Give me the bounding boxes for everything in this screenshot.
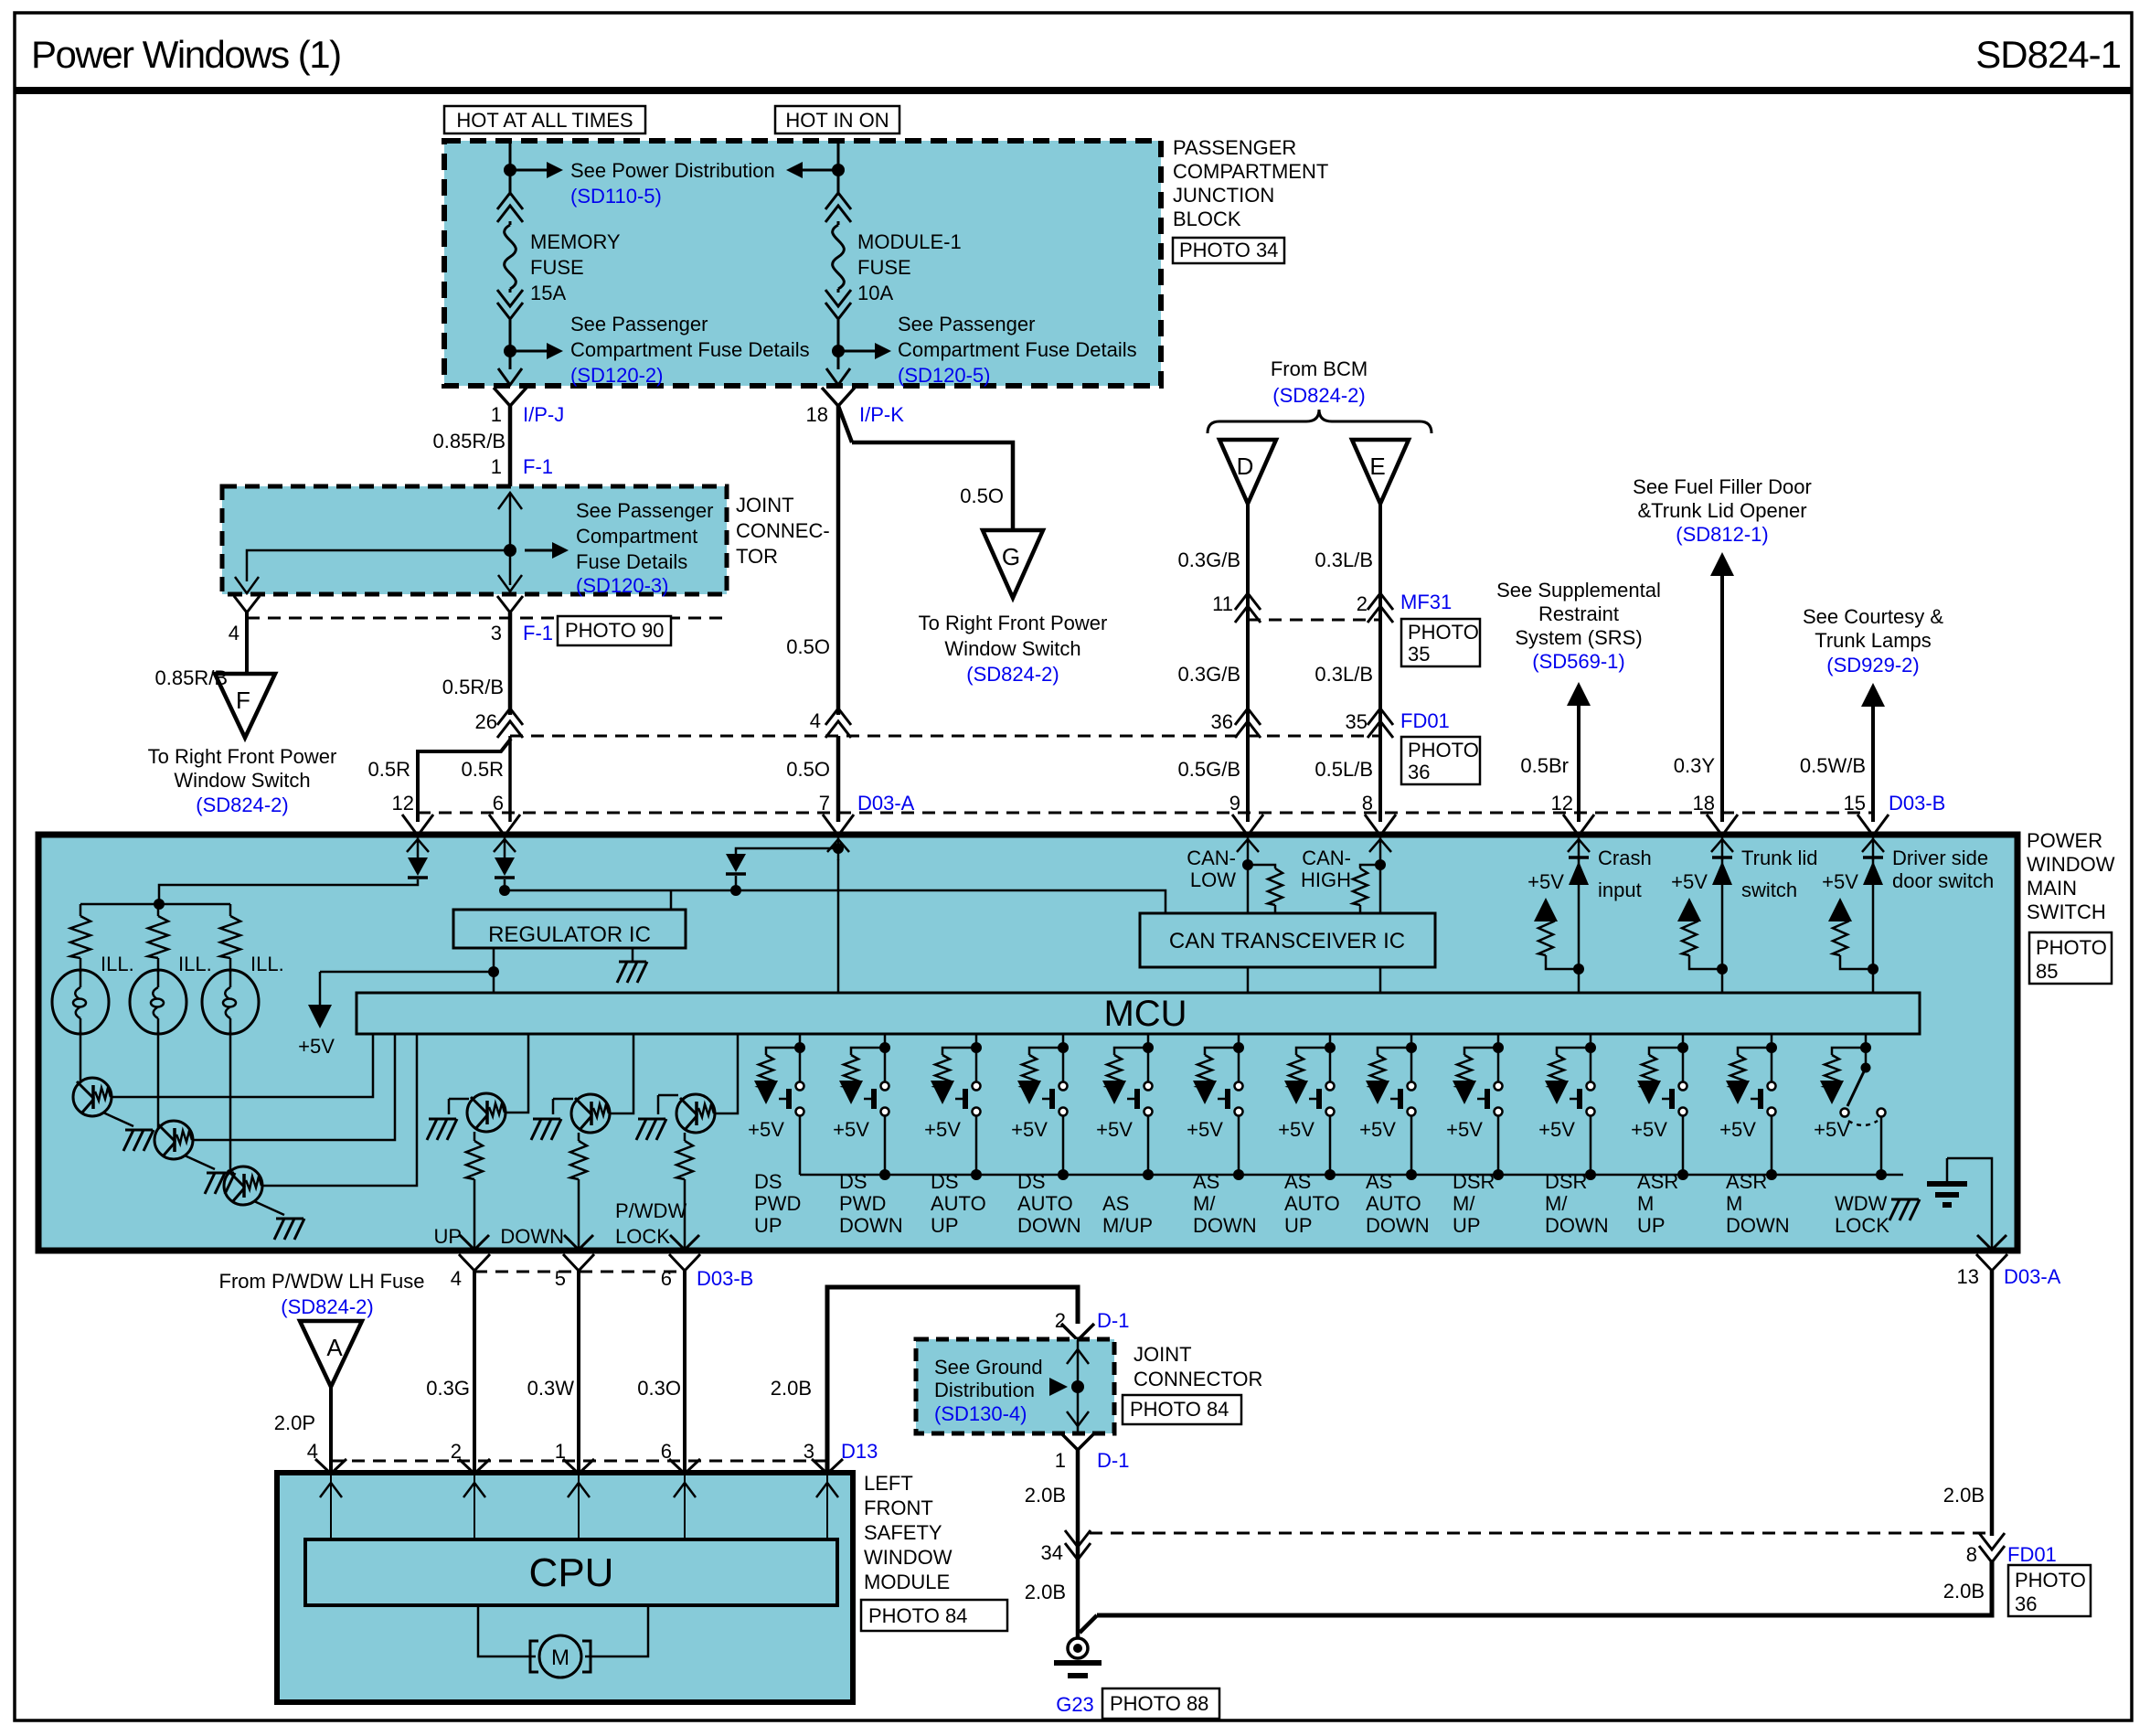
- svg-text:4: 4: [229, 622, 239, 644]
- svg-text:(SD110-5): (SD110-5): [570, 185, 662, 208]
- svg-text:FD01: FD01: [2007, 1543, 2057, 1566]
- switch cell DSR M/ DOWN: [1590, 1034, 1592, 1048]
- arrow to See Passenger Compartment Fuse Details (right): [844, 350, 877, 353]
- svg-text:12: 12: [392, 792, 414, 815]
- photo 84 box (joint connector): [1123, 1395, 1241, 1424]
- svg-text:WINDOW: WINDOW: [2027, 853, 2115, 876]
- svg-text:(SD929-2): (SD929-2): [1826, 654, 1919, 676]
- wire F-1 down to pin 26: [508, 612, 513, 715]
- junction node to fuse details: [504, 345, 516, 357]
- off-page triangle D: [1219, 440, 1276, 504]
- dashed connector row (FD01/pin4): [510, 735, 1380, 738]
- svg-text:See Ground: See Ground: [934, 1356, 1043, 1379]
- svg-text:PHOTO 90: PHOTO 90: [565, 619, 664, 642]
- connector leaving junction block pin 1 I/P-J: [498, 368, 522, 385]
- svg-text:4: 4: [810, 709, 821, 732]
- svg-text:PHOTO 88: PHOTO 88: [1110, 1692, 1208, 1715]
- wire driver door to courtesy lamps: [1871, 703, 1875, 822]
- Q2 base wire to MCU: [193, 1034, 395, 1140]
- svg-text:WINDOW: WINDOW: [864, 1546, 953, 1569]
- regulator ground: [632, 948, 634, 962]
- diode D3: [726, 854, 746, 872]
- diode D1 on pin 12 wire: [417, 857, 420, 860]
- WDW LOCK switch cell: [1865, 1034, 1868, 1048]
- lamp rail: [80, 903, 230, 906]
- connector 1 D-1: [1061, 1433, 1094, 1450]
- svg-text:PHOTO: PHOTO: [2015, 1569, 2086, 1592]
- svg-text:POWER: POWER: [2027, 829, 2102, 852]
- crash input cell: [1578, 859, 1581, 993]
- svg-text:0.3O: 0.3O: [637, 1377, 681, 1400]
- svg-text:System (SRS): System (SRS): [1515, 626, 1642, 649]
- lamp ILL 2: [130, 970, 186, 1034]
- svg-text:(SD130-4): (SD130-4): [934, 1402, 1027, 1425]
- svg-text:From P/WDW LH Fuse: From P/WDW LH Fuse: [219, 1270, 425, 1293]
- svg-text:CONNEC-: CONNEC-: [736, 519, 830, 542]
- switch cell AS AUTO UP: [1329, 1034, 1332, 1048]
- wire pin6 to +5V rail: [504, 879, 506, 890]
- svg-text:0.85R/B: 0.85R/B: [433, 430, 506, 453]
- svg-text:From BCM: From BCM: [1271, 357, 1368, 380]
- svg-text:15A: 15A: [530, 282, 566, 304]
- switch cell DSR M/ UP: [1497, 1034, 1500, 1048]
- wire branch to G triangle: [852, 442, 1013, 530]
- svg-text:PHOTO: PHOTO: [2036, 936, 2107, 959]
- CAN box to MCU wires: [1247, 967, 1250, 993]
- svg-text:See Passenger: See Passenger: [576, 499, 713, 522]
- svg-text:See Power Distribution: See Power Distribution: [570, 159, 775, 182]
- CAN transceiver box: [1140, 913, 1435, 967]
- wire 2.0B to D-1: [827, 1287, 1078, 1473]
- svg-text:PHOTO: PHOTO: [1408, 739, 1479, 761]
- svg-text:BLOCK: BLOCK: [1173, 208, 1241, 230]
- svg-text:Window Switch: Window Switch: [174, 769, 310, 792]
- svg-text:SD824-1: SD824-1: [1975, 33, 2121, 76]
- svg-text:DOWN: DOWN: [1726, 1214, 1790, 1237]
- rail junction: [1585, 1169, 1596, 1180]
- svg-text:18: 18: [1693, 792, 1715, 815]
- photo 34 box: [1173, 238, 1284, 263]
- svg-text:FUSE: FUSE: [530, 256, 584, 279]
- svg-text:Compartment Fuse Details: Compartment Fuse Details: [898, 338, 1137, 361]
- svg-text:PWD: PWD: [754, 1192, 801, 1215]
- resistor R-ill3: [229, 904, 232, 916]
- svg-text:Compartment: Compartment: [576, 525, 697, 548]
- wire D (CAN low): [1246, 504, 1250, 822]
- svg-text:See Fuel Filler Door: See Fuel Filler Door: [1633, 475, 1812, 498]
- switch cell AS M/ DOWN: [1238, 1034, 1240, 1048]
- svg-text:7: 7: [819, 792, 830, 815]
- switch cell DS PWD DOWN: [884, 1034, 887, 1048]
- rail junction: [1677, 1169, 1688, 1180]
- wire ground to pin 13: [1947, 1158, 1992, 1250]
- svg-text:0.5O: 0.5O: [786, 758, 830, 781]
- svg-text:36: 36: [2015, 1592, 2037, 1615]
- svg-text:+5V: +5V: [1538, 1118, 1575, 1141]
- fuse MODULE-1 FUSE 10A: [825, 193, 851, 209]
- switch cell DS AUTO DOWN: [1062, 1034, 1065, 1048]
- svg-text:0.5O: 0.5O: [960, 485, 1004, 507]
- svg-text:AUTO: AUTO: [1017, 1192, 1073, 1215]
- label HOT AT ALL TIMES: [444, 106, 645, 133]
- svg-text:D13: D13: [841, 1440, 878, 1463]
- svg-text:Trunk lid: Trunk lid: [1741, 847, 1818, 869]
- svg-text:0.3L/B: 0.3L/B: [1314, 548, 1373, 571]
- svg-text:ILL.: ILL.: [178, 953, 212, 975]
- wire through D-1 joint connector: [1077, 1340, 1080, 1432]
- svg-text:(SD569-1): (SD569-1): [1532, 650, 1624, 673]
- label HOT IN ON: [775, 106, 899, 133]
- svg-text:+5V: +5V: [1719, 1118, 1756, 1141]
- wire split to pins 12 and 6: [508, 736, 512, 822]
- svg-text:D03-A: D03-A: [857, 792, 915, 815]
- lamp ILL 1: [52, 970, 109, 1034]
- switch cell AS M/UP: [1147, 1034, 1150, 1048]
- off-page triangle G: [983, 530, 1043, 598]
- svg-text:PWD: PWD: [839, 1192, 886, 1215]
- junction node on module-1 wire: [832, 164, 845, 176]
- connector 34 row: [1090, 1532, 1992, 1535]
- joint connector dashed box: [222, 486, 727, 594]
- svg-text:I/P-K: I/P-K: [859, 403, 904, 426]
- photo 88 box: [1102, 1688, 1219, 1719]
- svg-text:M/UP: M/UP: [1102, 1214, 1153, 1237]
- svg-text:F-1: F-1: [523, 622, 553, 644]
- svg-text:0.5O: 0.5O: [786, 635, 830, 658]
- svg-text:FRONT: FRONT: [864, 1496, 933, 1519]
- svg-text:+5V: +5V: [1187, 1118, 1223, 1141]
- MCU box: [357, 993, 1920, 1034]
- CAN-HIGH terminating resistor: [1360, 865, 1380, 868]
- wire pin 13 D03-A down: [1990, 1271, 1995, 1536]
- svg-text:Restraint: Restraint: [1538, 602, 1619, 625]
- svg-text:0.5L/B: 0.5L/B: [1314, 758, 1373, 781]
- CAN-LOW terminating resistor: [1248, 865, 1275, 868]
- transistor Q3: [224, 1166, 262, 1205]
- svg-text:F-1: F-1: [523, 455, 553, 478]
- driver transistor Q4 (UP): [449, 1098, 469, 1101]
- svg-text:switch: switch: [1741, 879, 1797, 901]
- svg-text:36: 36: [1211, 710, 1233, 733]
- joint connector ground dashed box: [916, 1339, 1114, 1433]
- svg-text:UP: UP: [754, 1214, 782, 1237]
- driver transistor Q6 (P/WDW LOCK): [658, 1094, 678, 1097]
- svg-text:1: 1: [491, 455, 502, 478]
- CAN-LOW wire: [1247, 864, 1250, 913]
- svg-text:LOCK: LOCK: [1835, 1214, 1889, 1237]
- Q3 emitter ground: [254, 1201, 284, 1215]
- svg-text:0.3G: 0.3G: [426, 1377, 470, 1400]
- wire I/P-J to F-1: [508, 406, 513, 486]
- svg-text:MEMORY: MEMORY: [530, 230, 621, 253]
- svg-text:M/: M/: [1193, 1192, 1216, 1215]
- svg-text:2.0B: 2.0B: [1025, 1581, 1066, 1603]
- wire lamp1 to Q1: [80, 1031, 82, 1081]
- svg-text:D-1: D-1: [1097, 1449, 1129, 1472]
- svg-text:Distribution: Distribution: [934, 1379, 1035, 1401]
- svg-text:+5V: +5V: [1096, 1118, 1133, 1141]
- rail junction: [1406, 1169, 1417, 1180]
- svg-text:0.5Br: 0.5Br: [1520, 754, 1569, 777]
- svg-text:I/P-J: I/P-J: [523, 403, 564, 426]
- svg-text:0.5R: 0.5R: [462, 758, 504, 781]
- Q3 base wire to MCU: [262, 1034, 417, 1186]
- arrow to See Power Distribution: [516, 169, 548, 172]
- svg-text:Power Windows (1): Power Windows (1): [31, 33, 341, 76]
- svg-text:Window Switch: Window Switch: [944, 637, 1080, 660]
- svg-text:AUTO: AUTO: [1366, 1192, 1421, 1215]
- svg-text:+5V: +5V: [924, 1118, 961, 1141]
- svg-text:(SD120-3): (SD120-3): [576, 574, 668, 597]
- svg-text:HOT AT ALL TIMES: HOT AT ALL TIMES: [456, 109, 633, 132]
- svg-text:Compartment Fuse Details: Compartment Fuse Details: [570, 338, 810, 361]
- photo 90 box: [558, 616, 671, 645]
- svg-text:FD01: FD01: [1400, 709, 1450, 732]
- brace: [1208, 410, 1432, 433]
- svg-text:CPU: CPU: [529, 1550, 614, 1595]
- photo 84 box (module): [861, 1600, 1007, 1631]
- svg-text:M: M: [1637, 1192, 1654, 1215]
- junction node in joint connector: [504, 544, 516, 557]
- svg-text:12: 12: [1551, 792, 1573, 815]
- svg-text:(SD812-1): (SD812-1): [1676, 523, 1768, 546]
- svg-text:WDW: WDW: [1835, 1192, 1888, 1215]
- svg-text:CAN-: CAN-: [1302, 847, 1351, 869]
- ground G23: [1080, 1615, 1097, 1633]
- node D3 to rail: [730, 885, 741, 896]
- svg-text:(SD824-2): (SD824-2): [966, 663, 1059, 686]
- motor M: [478, 1605, 536, 1656]
- svg-text:D: D: [1237, 453, 1254, 480]
- svg-text:HIGH: HIGH: [1301, 868, 1351, 891]
- off-page triangle A: [300, 1321, 362, 1387]
- rail junction: [879, 1169, 890, 1180]
- rail junction: [971, 1169, 982, 1180]
- REGULATOR IC box: [670, 890, 673, 910]
- svg-text:18: 18: [806, 403, 828, 426]
- photo 85 box: [2029, 932, 2112, 984]
- +5V rail across: [505, 890, 1165, 913]
- junction node on memory wire: [504, 164, 516, 176]
- svg-text:SWITCH: SWITCH: [2027, 900, 2106, 923]
- wire: memory fuse feed: [509, 141, 512, 196]
- svg-text:UP: UP: [1284, 1214, 1313, 1237]
- svg-text:MODULE: MODULE: [864, 1571, 950, 1593]
- rail junction: [1143, 1169, 1154, 1180]
- svg-text:DOWN: DOWN: [500, 1225, 564, 1248]
- svg-text:13: 13: [1957, 1265, 1979, 1288]
- CPU box: [305, 1539, 837, 1605]
- svg-text:G: G: [1002, 543, 1020, 570]
- svg-text:DOWN: DOWN: [1017, 1214, 1081, 1237]
- lamp ILL 3: [202, 970, 259, 1034]
- svg-text:DOWN: DOWN: [1545, 1214, 1609, 1237]
- wire to triangle F: [245, 612, 249, 674]
- regulator output node: [493, 948, 495, 972]
- switch cell DS AUTO UP: [975, 1034, 978, 1048]
- svg-text:Fuse Details: Fuse Details: [576, 550, 687, 573]
- svg-text:FUSE: FUSE: [857, 256, 911, 279]
- svg-text:2.0B: 2.0B: [771, 1377, 812, 1400]
- left front safety window module box: [277, 1473, 853, 1702]
- svg-text:1: 1: [491, 403, 502, 426]
- svg-text:3: 3: [491, 622, 502, 644]
- arrow to See Passenger Compartment Fuse Details (left): [516, 350, 548, 353]
- Q1 base wire to MCU: [112, 1034, 373, 1097]
- wire trunk lid to opener: [1720, 572, 1724, 822]
- svg-text:AUTO: AUTO: [931, 1192, 986, 1215]
- connector leaving junction block pin 18 I/P-K: [826, 368, 850, 385]
- off-page triangle F: [215, 674, 275, 738]
- CAN-HIGH wire: [1379, 864, 1382, 913]
- wire pin12 to lamp rail: [159, 879, 418, 904]
- svg-text:+5V: +5V: [1278, 1118, 1314, 1141]
- svg-text:AUTO: AUTO: [1284, 1192, 1340, 1215]
- svg-text:0.3L/B: 0.3L/B: [1314, 663, 1373, 686]
- svg-text:PASSENGER: PASSENGER: [1173, 136, 1296, 159]
- svg-text:0.85R/B: 0.85R/B: [155, 666, 229, 689]
- svg-text:0.3Y: 0.3Y: [1674, 754, 1716, 777]
- trunk lid switch cell: [1721, 859, 1724, 993]
- wire lamp3 to Q3: [229, 1031, 232, 1172]
- svg-text:M/: M/: [1545, 1192, 1568, 1215]
- svg-text:M/: M/: [1453, 1192, 1475, 1215]
- svg-text:2.0B: 2.0B: [1943, 1484, 1985, 1507]
- wire DOWN 0.3W: [577, 1271, 580, 1473]
- switch cell ASR M UP: [1682, 1034, 1685, 1048]
- svg-text:26: 26: [475, 710, 497, 733]
- chassis ground symbol: [1946, 1158, 1949, 1182]
- svg-text:35: 35: [1408, 643, 1430, 666]
- svg-text:See Passenger: See Passenger: [898, 313, 1035, 335]
- svg-text:(SD824-2): (SD824-2): [1272, 384, 1365, 407]
- wire: module-1 fuse feed: [837, 141, 840, 196]
- Q2 emitter ground: [185, 1156, 215, 1169]
- svg-text:9: 9: [1229, 792, 1240, 815]
- wire 2.0P: [329, 1387, 333, 1473]
- svg-text:Crash: Crash: [1598, 847, 1652, 869]
- rail junction: [1058, 1169, 1069, 1180]
- svg-text:(SD824-2): (SD824-2): [196, 793, 288, 816]
- svg-text:+5V: +5V: [833, 1118, 869, 1141]
- svg-text:+5V: +5V: [1631, 1118, 1667, 1141]
- svg-text:11: 11: [1212, 592, 1233, 615]
- wire 2.0B to G23: [1076, 1450, 1080, 1638]
- svg-text:door switch: door switch: [1892, 869, 1994, 892]
- svg-text:(SD120-2): (SD120-2): [570, 364, 663, 387]
- svg-text:M: M: [1726, 1192, 1742, 1215]
- svg-text:To Right Front Power: To Right Front Power: [919, 612, 1108, 634]
- photo 36 box (upper): [1401, 737, 1480, 784]
- box exit connectors bottom: [460, 1235, 489, 1250]
- svg-text:REGULATOR IC: REGULATOR IC: [488, 922, 651, 947]
- svg-text:See Supplemental: See Supplemental: [1496, 579, 1661, 602]
- svg-text:COMPARTMENT: COMPARTMENT: [1173, 160, 1328, 183]
- svg-text:CAN-: CAN-: [1187, 847, 1236, 869]
- svg-text:UP: UP: [433, 1225, 462, 1248]
- svg-text:D03-B: D03-B: [1889, 792, 1945, 815]
- arrow see ground distribution: [1049, 1378, 1068, 1396]
- svg-text:+5V: +5V: [1814, 1118, 1850, 1141]
- WDW lock switch ground hatch: [1891, 1198, 1919, 1201]
- wire lamp2 to Q2: [157, 1031, 160, 1129]
- svg-text:G23: G23: [1056, 1693, 1094, 1716]
- svg-text:0.5R: 0.5R: [368, 758, 410, 781]
- svg-text:0.3G/B: 0.3G/B: [1178, 548, 1240, 571]
- svg-text:85: 85: [2036, 960, 2058, 983]
- switch cell AS AUTO DOWN: [1410, 1034, 1413, 1048]
- svg-text:DOWN: DOWN: [839, 1214, 903, 1237]
- connector pin 26: [497, 708, 523, 725]
- svg-text:(SD824-2): (SD824-2): [281, 1295, 373, 1318]
- svg-text:MAIN: MAIN: [2027, 877, 2077, 900]
- title bar separator: [15, 87, 2132, 94]
- wire I/P-K down: [838, 406, 852, 442]
- wire pin7 to MCU: [837, 859, 840, 993]
- svg-text:UP: UP: [1637, 1214, 1666, 1237]
- svg-text:Trunk Lamps: Trunk Lamps: [1815, 629, 1932, 652]
- rail junction: [1766, 1169, 1777, 1180]
- passenger compartment junction block box: [444, 141, 1161, 386]
- svg-text:D03-B: D03-B: [697, 1267, 753, 1290]
- dashed connector row D03: [418, 812, 1873, 815]
- svg-text:F: F: [236, 687, 250, 714]
- svg-text:PHOTO 84: PHOTO 84: [868, 1604, 967, 1627]
- resistor R-ill2: [157, 904, 160, 916]
- wire UP 0.3G: [473, 1271, 476, 1473]
- node in D-1 joint connector: [1071, 1380, 1084, 1393]
- svg-text:A: A: [326, 1334, 343, 1361]
- driver transistor Q5 (DOWN): [553, 1098, 573, 1101]
- svg-text:0.5W/B: 0.5W/B: [1800, 754, 1866, 777]
- svg-text:input: input: [1598, 879, 1642, 901]
- svg-text:JOINT: JOINT: [1134, 1343, 1192, 1366]
- svg-text:D-1: D-1: [1097, 1309, 1129, 1332]
- branch wire to pin 4 left: [247, 550, 510, 581]
- transistor Q1: [73, 1078, 112, 1116]
- svg-text:2.0B: 2.0B: [1943, 1580, 1985, 1603]
- svg-text:35: 35: [1346, 710, 1368, 733]
- photo 36 box (lower): [2008, 1565, 2091, 1616]
- svg-text:LOW: LOW: [1190, 868, 1236, 891]
- svg-text:PHOTO: PHOTO: [1408, 621, 1479, 644]
- svg-text:AS: AS: [1102, 1192, 1129, 1215]
- svg-text:JUNCTION: JUNCTION: [1173, 184, 1274, 207]
- svg-text:DOWN: DOWN: [1193, 1214, 1257, 1237]
- svg-text:10A: 10A: [857, 282, 893, 304]
- resistor R-ill1: [80, 904, 82, 916]
- wire 2.0B bottom run: [1097, 1560, 1992, 1615]
- svg-text:+5V: +5V: [1011, 1118, 1048, 1141]
- svg-text:&Trunk Lid Opener: &Trunk Lid Opener: [1637, 499, 1806, 522]
- junction node to fuse details right: [832, 345, 845, 357]
- svg-text:4: 4: [451, 1267, 462, 1290]
- svg-text:CAN TRANSCEIVER IC: CAN TRANSCEIVER IC: [1169, 929, 1405, 953]
- wire LOCK 0.3O: [683, 1271, 687, 1473]
- svg-text:+5V: +5V: [1359, 1118, 1396, 1141]
- wire regulator to +5V arrow: [320, 971, 494, 974]
- svg-text:+5V: +5V: [1822, 870, 1858, 893]
- svg-text:JOINT: JOINT: [736, 494, 794, 517]
- svg-text:HOT IN ON: HOT IN ON: [785, 109, 889, 132]
- wire E (CAN high): [1378, 504, 1382, 822]
- svg-text:(SD120-5): (SD120-5): [898, 364, 990, 387]
- svg-text:+5V: +5V: [748, 1118, 784, 1141]
- svg-text:UP: UP: [931, 1214, 959, 1237]
- svg-text:15: 15: [1844, 792, 1866, 815]
- svg-text:LEFT: LEFT: [864, 1472, 913, 1495]
- svg-text:MCU: MCU: [1103, 994, 1187, 1034]
